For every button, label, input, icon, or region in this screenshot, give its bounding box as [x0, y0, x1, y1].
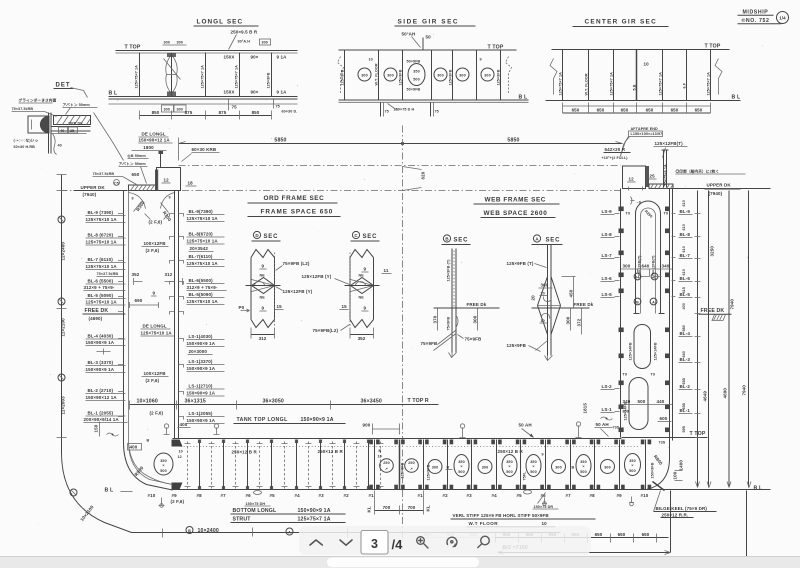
hole 300 b	[478, 460, 492, 474]
stiffener hooks on inner column	[170, 214, 184, 420]
svg-text:アバトン 50mm: アバトン 50mm	[119, 161, 147, 166]
svg-text:10: 10	[541, 319, 545, 323]
svg-text:340: 340	[623, 399, 631, 404]
end arrows	[179, 142, 623, 144]
svg-text:300: 300	[437, 74, 443, 78]
svg-text:(4690): (4690)	[89, 316, 103, 321]
svg-text:LS-9: LS-9	[602, 209, 613, 214]
svg-text:LS-7: LS-7	[602, 253, 613, 258]
svg-text:H: H	[636, 276, 639, 280]
svg-text:LS-1(2055): LS-1(2055)	[189, 411, 213, 416]
svg-text:W.T FLOOR: W.T FLOOR	[469, 521, 499, 526]
svg-text:60×30 H.RB: 60×30 H.RB	[14, 145, 36, 149]
leader from note	[621, 137, 630, 156]
svg-text:125×75×7 1A: 125×75×7 1A	[135, 65, 139, 89]
bracket at inner column foot	[172, 440, 183, 447]
svg-text:250: 250	[383, 461, 389, 465]
svg-text:900: 900	[363, 423, 371, 428]
svg-text:875: 875	[219, 110, 227, 115]
svg-text:125×75×7 1A: 125×75×7 1A	[659, 72, 663, 96]
svg-text:#7: #7	[566, 493, 572, 498]
lightening hole 2	[384, 68, 397, 81]
svg-text:A: A	[288, 531, 291, 535]
svg-text:T9: T9	[651, 373, 656, 377]
svg-text:BL-6: BL-6	[680, 276, 691, 281]
center girder solid verticals	[374, 440, 376, 490]
tank top right segment	[622, 437, 671, 439]
svg-text:312×9 + 75×9-: 312×9 + 75×9-	[187, 285, 218, 290]
svg-text:BL-3 (3370): BL-3 (3370)	[88, 360, 114, 365]
leader line	[229, 35, 237, 50]
svg-text:300: 300	[623, 264, 631, 269]
bulwark box above deck	[157, 168, 181, 191]
revision circle 1/4	[777, 12, 789, 24]
dim line 5850 right	[403, 143, 623, 145]
long diagonal leader	[94, 113, 124, 161]
svg-text:20×3542: 20×3542	[190, 246, 209, 251]
svg-text:312: 312	[165, 272, 173, 277]
svg-text:150×9FB: 150×9FB	[651, 462, 655, 478]
right side shell double	[669, 189, 671, 439]
vertical web double line	[48, 113, 50, 154]
svg-text:650: 650	[621, 108, 629, 113]
svg-text:100×12FB: 100×12FB	[144, 241, 167, 246]
svg-text:NE: NE	[359, 274, 365, 278]
svg-text:125×12FB (Y): 125×12FB (Y)	[302, 274, 332, 279]
svg-text:400: 400	[130, 445, 138, 450]
lightening hole 1	[358, 68, 371, 81]
anchor symbol above tank top a	[460, 428, 466, 438]
svg-text:B L: B L	[754, 486, 763, 492]
white scroll segment	[327, 558, 479, 568]
svg-text:650: 650	[695, 108, 703, 113]
svg-text:SEC: SEC	[454, 238, 469, 244]
dotted flange right	[274, 253, 276, 326]
T TOP R dash-dot level line	[179, 165, 621, 167]
svg-text:グラインダーきさ内面: グラインダーきさ内面	[19, 98, 57, 103]
svg-text:#4: #4	[492, 493, 498, 498]
svg-text:9: 9	[132, 197, 134, 201]
svg-text:700: 700	[408, 505, 416, 510]
tank top plating	[173, 438, 622, 440]
slot tube 3	[629, 378, 648, 430]
svg-text:B: B	[636, 301, 639, 305]
svg-text:400: 400	[682, 303, 686, 309]
girder vertical 1	[562, 50, 564, 101]
svg-text:312×9 + 75×9-: 312×9 + 75×9-	[84, 285, 115, 290]
flange lines right	[52, 126, 91, 128]
svg-text:312: 312	[259, 336, 267, 341]
svg-text:595: 595	[682, 426, 686, 432]
bottom stubs right pair	[430, 103, 432, 117]
svg-text:75×37.5♯RB: 75×37.5♯RB	[93, 172, 115, 176]
svg-text:500: 500	[530, 470, 536, 474]
svg-text:75: 75	[435, 110, 439, 114]
svg-text:11×2003: 11×2003	[61, 396, 66, 415]
svg-text:150×75 DR: 150×75 DR	[534, 505, 554, 509]
svg-text:125×9FB: 125×9FB	[401, 462, 405, 478]
bracket toe marks	[167, 53, 176, 57]
svg-text:9: 9	[364, 267, 367, 272]
svg-text:↗: ↗	[410, 467, 413, 471]
lightening hole 3	[434, 68, 447, 81]
leaders	[123, 177, 137, 185]
svg-text:11: 11	[384, 268, 389, 273]
svg-text:75: 75	[385, 110, 389, 114]
UPPER DK dash-dot level line	[61, 190, 621, 192]
stiffener feet ticks ord half	[185, 444, 384, 487]
svg-text:150X: 150X	[224, 90, 235, 95]
dim 700 700 left of CL	[375, 510, 424, 512]
svg-text:/4: /4	[392, 537, 404, 552]
svg-text:9 1A: 9 1A	[277, 90, 288, 95]
svg-text:6.F: 6.F	[683, 82, 687, 88]
underline 1	[738, 14, 774, 16]
svg-text:#8: #8	[197, 493, 203, 498]
underline 2	[738, 23, 782, 25]
svg-text:300: 300	[387, 74, 393, 78]
svg-text:SEC: SEC	[546, 238, 561, 244]
svg-text:50°AH: 50°AH	[402, 32, 416, 37]
manhole oval far left	[154, 453, 173, 475]
svg-text:75FL: 75FL	[523, 471, 527, 481]
NE bowtie detail	[351, 278, 374, 294]
lightening hole 4	[456, 68, 469, 81]
dim 352 bottom	[350, 334, 374, 336]
svg-text:SEC: SEC	[363, 234, 378, 240]
svg-text:B: B	[379, 449, 382, 453]
svg-text:#5: #5	[270, 493, 276, 498]
svg-text:650: 650	[132, 172, 140, 177]
svg-text:650: 650	[618, 532, 626, 537]
svg-text:300: 300	[482, 466, 488, 470]
svg-text:#2: #2	[443, 493, 449, 498]
svg-text:300: 300	[432, 466, 438, 470]
title D SEC	[253, 231, 260, 238]
svg-text:4690: 4690	[723, 388, 728, 399]
svg-text:#9: #9	[617, 493, 623, 498]
circled mark 3	[58, 374, 65, 381]
svg-text:BL-6 (5500): BL-6 (5500)	[88, 279, 114, 284]
svg-text:125×9FB: 125×9FB	[341, 69, 345, 85]
girder vertical 7	[500, 51, 502, 100]
svg-text:T TOP R: T TOP R	[408, 398, 429, 404]
dim vertical 2	[708, 191, 710, 488]
svg-text:FREE DK: FREE DK	[701, 308, 725, 314]
svg-text:125×75×10 1A: 125×75×10 1A	[86, 240, 118, 245]
svg-text:FREE Dk: FREE Dk	[467, 302, 487, 307]
svg-text:300: 300	[555, 466, 561, 470]
dim 75 right	[273, 100, 275, 109]
girder vertical 2 (W.T. FLOOR)	[378, 51, 380, 100]
svg-text:(7940): (7940)	[709, 191, 723, 196]
svg-text:400: 400	[180, 422, 188, 427]
anchor symbol between #9 #10	[629, 497, 634, 503]
svg-text:36×1315: 36×1315	[185, 399, 206, 405]
svg-text:×: ×	[508, 465, 510, 469]
svg-text:UPP DK: UPP DK	[69, 122, 84, 126]
svg-text:125×75×7 1A: 125×75×7 1A	[298, 517, 331, 523]
svg-text:LS-1(4030): LS-1(4030)	[189, 334, 213, 339]
svg-text:#1: #1	[369, 493, 375, 498]
svg-text:150×90×12 1A: 150×90×12 1A	[86, 395, 118, 400]
svg-text:#2: #2	[344, 493, 350, 498]
svg-text:12: 12	[178, 455, 182, 459]
svg-text:660: 660	[682, 351, 686, 357]
svg-text:+10°+(2 FULL): +10°+(2 FULL)	[602, 156, 629, 160]
small box on flange	[59, 127, 68, 133]
small ellipse mark under #5	[254, 491, 262, 495]
svg-text:300: 300	[566, 316, 571, 324]
svg-text:W.T. FLOOR: W.T. FLOOR	[585, 73, 589, 95]
underline	[474, 203, 560, 205]
svg-text:125×75×7 1A: 125×75×7 1A	[559, 72, 563, 96]
svg-text:300: 300	[604, 466, 610, 470]
svg-text:650: 650	[646, 108, 654, 113]
svg-text:BL-8 (6720): BL-8 (6720)	[88, 233, 114, 238]
svg-text:73S: 73S	[659, 441, 666, 445]
svg-text:#10: #10	[641, 493, 649, 498]
arrows on dim lines at BL	[696, 482, 752, 488]
circled mark 2	[58, 298, 65, 305]
svg-text:75: 75	[276, 105, 280, 109]
squiggle under box	[631, 197, 635, 205]
hatch mark under free dk	[712, 315, 726, 321]
left break zigzag	[338, 57, 344, 94]
svg-text:150×90×9 1A: 150×90×9 1A	[187, 366, 216, 371]
inner tick	[31, 120, 33, 130]
svg-text:125×75×10 1A: 125×75×10 1A	[86, 300, 118, 305]
intermediate dashed stiffeners (ord half)	[188, 442, 381, 489]
note AFT&PRE END box leader	[621, 137, 629, 157]
bulwark shell plate above deck	[663, 151, 665, 188]
svg-text:500: 500	[629, 469, 635, 473]
title underline	[194, 25, 259, 27]
svg-text:BOTTOM LONGL: BOTTOM LONGL	[233, 508, 277, 514]
svg-text:415: 415	[682, 287, 686, 293]
vertical dim line with bottom arc	[62, 175, 132, 533]
svg-text:WEB SPACE 2600: WEB SPACE 2600	[484, 210, 548, 217]
svg-text:150×90×9 1A: 150×90×9 1A	[86, 340, 115, 345]
U-tube slot top arch	[636, 201, 661, 314]
slot tube 2	[634, 325, 651, 369]
svg-text:50: 50	[426, 35, 432, 40]
svg-text:11×2100: 11×2100	[61, 318, 66, 337]
svg-text:610: 610	[682, 200, 686, 206]
upper deck line left	[74, 190, 128, 192]
svg-text:350: 350	[580, 460, 586, 464]
svg-text:FRAME SPACE 650: FRAME SPACE 650	[261, 209, 334, 216]
girder vertical 7	[710, 50, 712, 101]
svg-text:360: 360	[541, 283, 549, 288]
svg-text:875: 875	[185, 110, 193, 115]
web frame floors right half	[448, 440, 646, 490]
girder vertical 3	[402, 51, 404, 100]
manhole 350/500 d	[576, 455, 591, 477]
baseline right	[647, 489, 771, 491]
sym marks at LS-1 level	[601, 417, 613, 420]
svg-text:10×1060: 10×1060	[137, 399, 158, 405]
svg-text:4649: 4649	[703, 391, 708, 402]
deck bracket arcs below deck	[129, 193, 146, 209]
circled H L	[634, 273, 641, 280]
svg-text:1400: 1400	[679, 460, 684, 471]
svg-text:90×: 90×	[251, 55, 259, 60]
hole 250 right of CL	[405, 459, 419, 473]
small tick symbols near BL labels	[672, 214, 676, 297]
leader	[388, 104, 398, 111]
svg-text:250×12 R.R.: 250×12 R.R.	[662, 512, 689, 517]
svg-text:50 AH: 50 AH	[519, 423, 532, 428]
girder vertical 2 W.T. FLOOR	[588, 50, 590, 101]
svg-text:B: B	[188, 529, 191, 533]
svg-text:7940: 7940	[730, 299, 735, 310]
weld semicircle	[40, 116, 49, 133]
svg-text:150X: 150X	[224, 55, 235, 60]
svg-text:(2 F,6): (2 F,6)	[171, 499, 185, 504]
black floor brackets top (web half)	[369, 440, 651, 445]
small ellipse mark under #6 right	[524, 490, 532, 494]
right bilge curve	[647, 439, 670, 490]
toolbar background	[299, 526, 591, 555]
manhole 350/500 c	[526, 455, 541, 477]
lower rail line	[109, 103, 298, 105]
top rail	[552, 49, 730, 51]
black stiffener cuts on left web	[619, 207, 624, 433]
upper deck line right	[673, 188, 771, 190]
svg-text:650: 650	[572, 108, 580, 113]
svg-text:FREE DK: FREE DK	[85, 308, 109, 314]
frame vertical 3	[205, 53, 207, 97]
svg-text:×: ×	[532, 465, 534, 469]
svg-text:150×90×12 1A: 150×90×12 1A	[139, 138, 171, 143]
faint 650 row under toolbar	[416, 532, 496, 538]
svg-text:500: 500	[638, 399, 646, 404]
svg-text:◎印部（船内天）に2枚く: ◎印部（船内天）に2枚く	[676, 169, 720, 174]
side shell outer	[124, 191, 173, 491]
svg-text:(7940): (7940)	[83, 192, 97, 197]
bottom stubs left pair	[380, 103, 382, 117]
web vertical double	[547, 245, 549, 356]
bottom dimension line	[140, 115, 272, 117]
inner details	[543, 297, 551, 302]
svg-text:1800: 1800	[143, 145, 154, 150]
bottom rail	[546, 100, 741, 102]
svg-text:125×75×7 1A: 125×75×7 1A	[610, 72, 614, 96]
svg-text:75: 75	[232, 105, 238, 110]
svg-text:150×90×9 1A: 150×90×9 1A	[86, 367, 115, 372]
svg-text:440: 440	[657, 399, 665, 404]
svg-text:60×30 D.: 60×30 D.	[282, 110, 298, 114]
svg-text:LS-1(2710): LS-1(2710)	[189, 384, 213, 389]
svg-text:300: 300	[177, 41, 183, 45]
dim line 5850 left	[179, 143, 403, 145]
svg-text:75×9FB(L2): 75×9FB(L2)	[313, 328, 339, 333]
top rail	[339, 49, 517, 51]
dotted longitudinal row left	[181, 446, 399, 448]
svg-text:9: 9	[153, 291, 156, 296]
right break zigzag	[715, 59, 722, 95]
svg-text:↗: ↗	[385, 467, 388, 471]
web vertical double	[451, 249, 453, 353]
svg-text:125×9FB: 125×9FB	[267, 72, 271, 88]
svg-text:NE: NE	[260, 296, 266, 300]
svg-text:10: 10	[378, 455, 382, 459]
svg-text:610: 610	[682, 269, 686, 275]
svg-text:15: 15	[342, 304, 348, 309]
svg-text:100×12FB: 100×12FB	[144, 371, 167, 376]
svg-text:73S: 73S	[613, 426, 620, 430]
svg-text:125×14FB: 125×14FB	[654, 342, 658, 360]
svg-text:LS-1: LS-1	[602, 407, 613, 412]
lightening hole 5	[481, 68, 494, 81]
svg-text:#3: #3	[467, 493, 473, 498]
dim vertical 1	[697, 191, 699, 488]
svg-text:3250: 3250	[710, 246, 715, 257]
svg-text:300: 300	[262, 41, 268, 45]
svg-text:655: 655	[682, 378, 686, 384]
side shell inner	[129, 191, 173, 485]
top rail double line	[116, 50, 298, 52]
svg-text:610: 610	[682, 224, 686, 230]
svg-text:LS-5: LS-5	[602, 292, 613, 297]
svg-text:352: 352	[132, 272, 140, 277]
lap bracket curve	[456, 316, 458, 328]
svg-text:700: 700	[383, 505, 391, 510]
bulwark box right	[623, 166, 646, 189]
svg-text:9: 9	[542, 453, 544, 457]
bulwark box hatch strip	[155, 170, 158, 191]
svg-text:350: 350	[413, 70, 419, 74]
svg-text:25: 25	[650, 174, 656, 179]
svg-text:125×75×10 1A: 125×75×10 1A	[187, 239, 219, 244]
dim line under row	[130, 404, 439, 406]
manhole 350/500	[408, 64, 425, 86]
svg-text:125×9FB: 125×9FB	[399, 69, 403, 85]
svg-text:25: 25	[70, 129, 74, 133]
svg-text:250×12 B R: 250×12 B R	[498, 449, 524, 454]
dim 620 rotated with leaders	[403, 167, 422, 191]
frame vertical 5	[271, 53, 273, 97]
svg-text:300: 300	[459, 74, 465, 78]
svg-text:NE: NE	[359, 296, 365, 300]
underline	[248, 202, 338, 204]
svg-text:B L: B L	[519, 95, 528, 101]
bilge keel stub	[653, 482, 665, 491]
svg-text:620: 620	[421, 171, 426, 179]
top border	[0, 556, 800, 558]
dim 75 with tick	[228, 100, 230, 111]
svg-text:×: ×	[162, 464, 164, 468]
svg-text:150×90×9 1A: 150×90×9 1A	[301, 417, 334, 423]
svg-text:125×75×10 1A: 125×75×10 1A	[187, 216, 219, 221]
svg-text:WEB FRAME SEC: WEB FRAME SEC	[485, 197, 546, 204]
dim vertical 3	[728, 191, 730, 488]
svg-text:℗NO. 752: ℗NO. 752	[742, 18, 770, 24]
svg-text:372: 372	[577, 318, 582, 326]
manhole 350/500 e	[625, 454, 641, 476]
svg-text:9: 9	[364, 306, 367, 311]
svg-text:18: 18	[188, 181, 194, 186]
svg-text:450: 450	[569, 289, 574, 297]
svg-text:LS-1(3370): LS-1(3370)	[189, 359, 213, 364]
anchor symbol above tank top b	[576, 426, 582, 438]
svg-text:BL-7: BL-7	[680, 253, 691, 258]
rotate icon	[447, 537, 457, 547]
svg-text:500: 500	[413, 78, 419, 82]
svg-text:125×75×10 1A: 125×75×10 1A	[141, 331, 173, 336]
svg-text:60×30 KRB: 60×30 KRB	[192, 147, 217, 152]
